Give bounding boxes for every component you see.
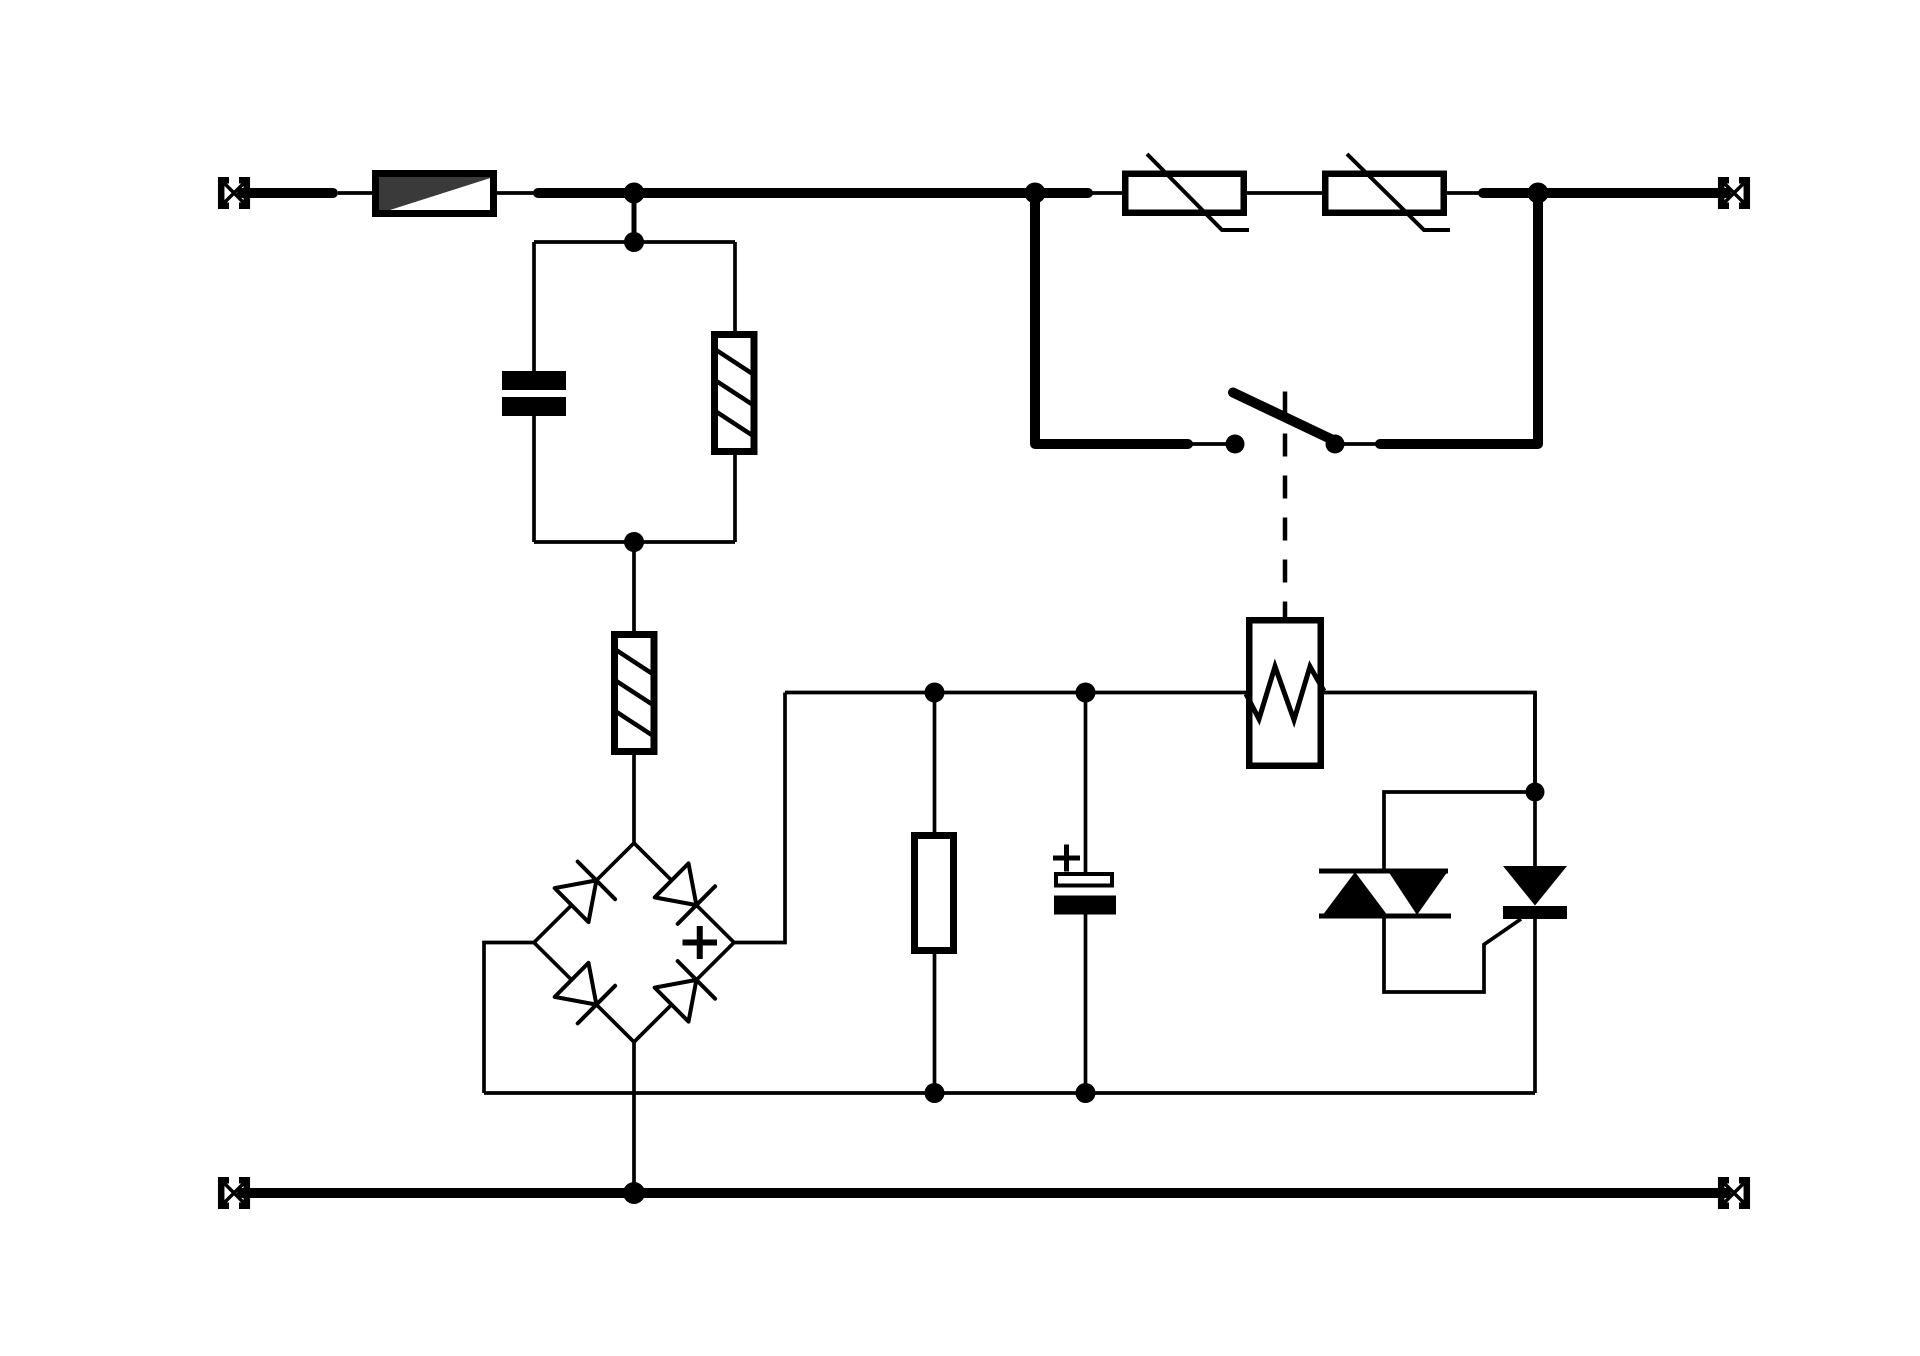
wire snubber drop	[632, 193, 637, 242]
node 0V C2	[1076, 1083, 1096, 1103]
wire top rail thick right	[1483, 188, 1726, 198]
node +rail C2	[1076, 683, 1096, 703]
wire bridge left to 0V	[484, 943, 534, 1094]
dashed actuator link	[1283, 392, 1288, 618]
capacitor C2 electrolytic	[1053, 845, 1116, 915]
thermistor RT2	[1325, 154, 1450, 230]
node dot top rail right	[1528, 183, 1549, 204]
diode D2	[655, 863, 715, 924]
plus mark bridge	[683, 926, 718, 959]
node snubber bottom	[624, 532, 644, 552]
node 0V R2	[925, 1083, 945, 1103]
capacitor C1	[502, 371, 566, 416]
wire from right contact	[1335, 442, 1380, 446]
node dot top rail at switch branch	[1025, 183, 1046, 204]
wire C2 top	[1084, 693, 1088, 873]
wire R leg lower	[733, 455, 737, 542]
wire thin from RT2	[1447, 191, 1483, 195]
wire SCR anode	[1533, 693, 1537, 867]
wire cap leg lower	[532, 416, 536, 542]
resistor R2 hatched	[615, 635, 655, 752]
resistor R3	[915, 836, 954, 951]
wire R leg upper	[733, 242, 737, 331]
diode D3	[555, 963, 615, 1024]
wire L-in thick stub	[242, 188, 333, 198]
wire between thermistors	[1247, 191, 1322, 195]
relay coil K1	[1246, 620, 1324, 766]
terminal BR bracket	[1721, 1180, 1747, 1206]
wire parallel top	[534, 240, 735, 244]
node dot top rail at snubber	[624, 183, 645, 204]
node snubber top	[624, 232, 644, 252]
wire top rail thick mid	[538, 188, 1088, 198]
wire thin to fuse	[338, 191, 372, 195]
wire R3 top	[933, 693, 937, 833]
node gate branch	[1526, 783, 1545, 802]
wire switch branch right thick	[1380, 193, 1538, 444]
wire C2 bottom	[1084, 915, 1088, 1094]
wire bridge bottom to rail	[632, 1042, 636, 1193]
wire R2 to bridge	[632, 755, 636, 843]
wire parallel bottom	[534, 540, 735, 544]
wire +rail left	[785, 691, 1246, 695]
wire 0V rail	[484, 1091, 1535, 1095]
triac Q1	[1319, 871, 1451, 916]
wire bridge right to +rail	[734, 693, 785, 943]
wire triac to gate path	[1384, 916, 1521, 992]
wire switch branch left thick	[1035, 193, 1188, 444]
switch S1	[1226, 393, 1345, 454]
diode D1	[555, 862, 615, 923]
node +rail R2	[925, 683, 945, 703]
wire cap leg upper	[532, 242, 536, 371]
fuse F1	[376, 174, 494, 214]
terminal TL bracket	[221, 180, 247, 206]
wire coil to vert	[1324, 693, 1535, 793]
terminal BL bracket	[221, 1180, 247, 1206]
wire thin to RT1	[1088, 191, 1122, 195]
diode D4	[655, 961, 715, 1022]
wire SCR cathode	[1533, 919, 1537, 1093]
node bottom rail	[623, 1182, 645, 1204]
SCR D5	[1503, 866, 1567, 919]
wire gate branch horizontal	[1384, 792, 1535, 871]
resistor R1 hatched	[715, 335, 755, 452]
bottom rail	[242, 1188, 1726, 1198]
wire to R2	[632, 542, 636, 631]
wire to left contact	[1188, 442, 1235, 446]
wire R3 bottom	[933, 954, 937, 1093]
terminal TR bracket	[1721, 180, 1747, 206]
thermistor RT1	[1125, 154, 1249, 230]
wire fuse to rail	[497, 191, 538, 195]
bridge diamond wires	[534, 843, 734, 1042]
